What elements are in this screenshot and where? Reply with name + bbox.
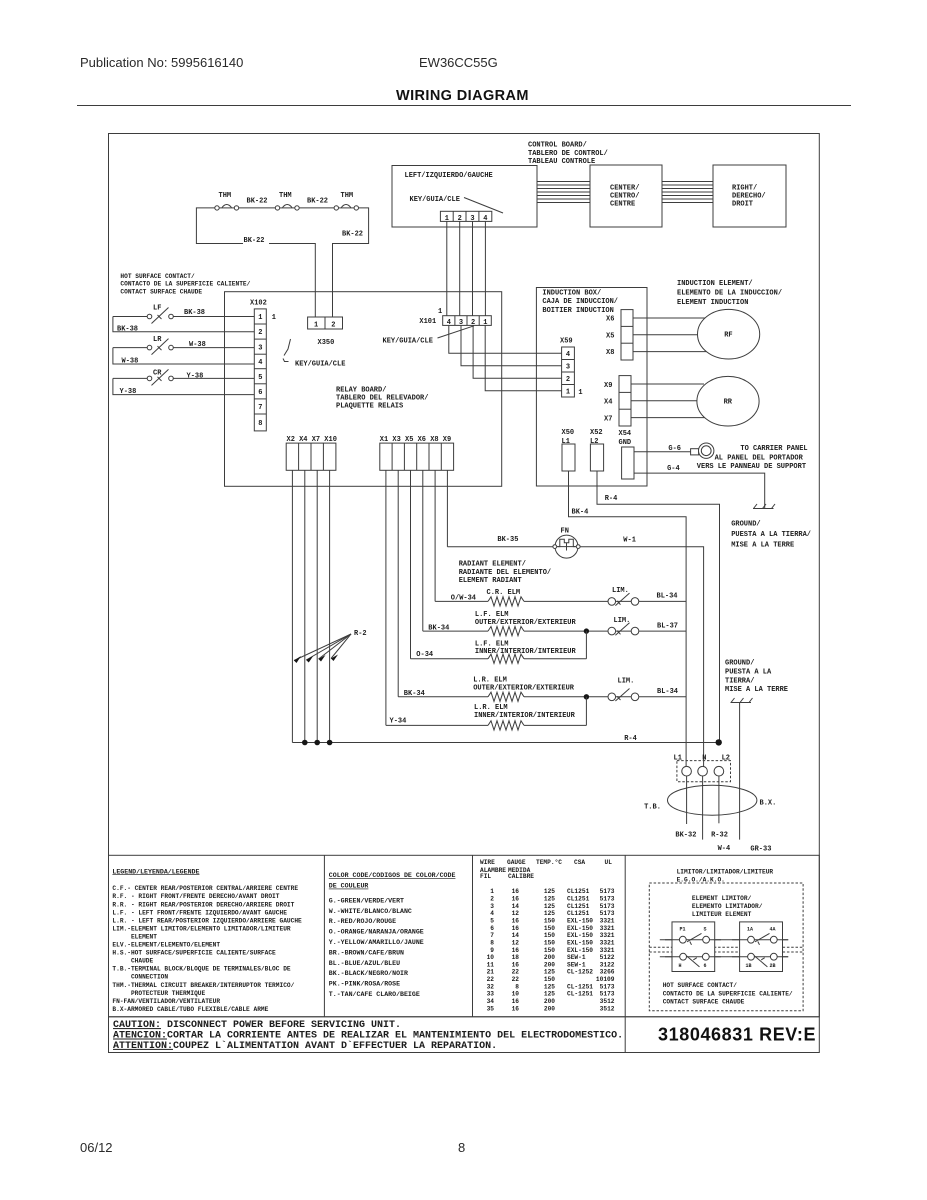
svg-text:06/12: 06/12 [80,1140,113,1155]
induction element RF [698,309,760,359]
LR return wire W-38 [113,348,254,364]
svg-text:18: 18 [512,954,520,961]
svg-text:L2: L2 [590,438,598,446]
svg-text:21: 21 [487,969,495,976]
svg-text:MISE A LA TERRE: MISE A LA TERRE [725,686,788,694]
wires from X2 X4 X7 X10 down [292,470,329,742]
svg-text:G-4: G-4 [667,465,680,473]
svg-text:CONNECTION: CONNECTION [112,974,168,981]
svg-text:EXL-150: EXL-150 [567,918,593,925]
svg-text:CENTRO/: CENTRO/ [610,193,639,201]
wires X101 to X59 [449,325,562,390]
svg-text:150: 150 [544,925,555,932]
key mark and label for X350 [284,339,291,356]
limitor contact dashed crossing lines [649,946,803,948]
legend box [109,855,820,1017]
svg-text:1B: 1B [746,963,752,969]
svg-text:PUESTA A LA: PUESTA A LA [725,669,772,677]
svg-text:CAJA DE INDUCCION/: CAJA DE INDUCCION/ [542,298,618,306]
svg-text:10: 10 [512,991,520,998]
terminal block dashed box [677,761,731,782]
wire W-1 fan to terminal N [577,547,704,767]
svg-text:BK-22: BK-22 [244,237,265,245]
junction dots on R-4 bus [302,740,308,746]
svg-text:R.R. - RIGHT REAR/POSTERIOR DE: R.R. - RIGHT REAR/POSTERIOR DERECHO/ARRI… [112,901,294,908]
svg-text:R.-RED/ROJO/ROUGE: R.-RED/ROJO/ROUGE [329,918,396,925]
svg-text:W-38: W-38 [122,357,139,365]
svg-text:CONTACT SURFACE CHAUDE: CONTACT SURFACE CHAUDE [120,288,202,295]
svg-text:W-1: W-1 [623,537,636,545]
C.R. element row [435,587,686,606]
svg-text:CENTRE: CENTRE [610,201,635,209]
svg-text:INNER/INTERIOR/INTERIEUR: INNER/INTERIOR/INTERIEUR [475,648,577,656]
svg-text:22: 22 [487,976,495,983]
svg-text:ATTENTION:COUPEZ L`ALIMENTATIO: ATTENTION:COUPEZ L`ALIMENTATION AVANT D`… [113,1040,497,1052]
svg-text:THM.-THERMAL CIRCUIT BREAKER/I: THM.-THERMAL CIRCUIT BREAKER/INTERRUPTOR… [112,982,294,989]
connector X1 X3 X5 X6 X8 X9 [380,436,454,470]
svg-text:GAUGE: GAUGE [507,859,526,866]
svg-text:L.R. ELM: L.R. ELM [473,677,507,685]
svg-text:5: 5 [490,918,494,925]
connector X102 [254,309,266,431]
svg-text:1: 1 [438,308,442,316]
fan FN [553,527,580,558]
svg-text:16: 16 [512,998,520,1005]
LF return wire BK-38 [113,317,254,332]
hot surface switch LR [113,336,254,355]
svg-text:LIMITEUR ELEMENT: LIMITEUR ELEMENT [692,911,752,918]
wires from X1..X9 down (staircase to radiant rows) [386,470,448,725]
svg-text:BK.-BLACK/NEGRO/NOIR: BK.-BLACK/NEGRO/NOIR [329,970,408,977]
svg-text:1: 1 [314,321,318,329]
svg-text:KEY/GUIA/CLE: KEY/GUIA/CLE [410,196,460,204]
svg-text:5173: 5173 [600,888,615,895]
svg-text:L.F. ELM: L.F. ELM [475,640,509,648]
svg-text:INDUCTION BOX/: INDUCTION BOX/ [542,290,601,298]
svg-text:R-32: R-32 [711,832,728,840]
svg-text:THM: THM [279,192,292,200]
svg-text:125: 125 [544,903,555,910]
svg-text:N: N [702,755,706,763]
L.F. outer element row [423,611,686,636]
svg-text:R-2: R-2 [354,630,367,638]
svg-text:BL-37: BL-37 [657,622,678,630]
svg-text:5: 5 [258,374,262,382]
svg-text:CL-1252: CL-1252 [567,969,593,976]
svg-text:8: 8 [490,939,494,946]
svg-text:L.F. - LEFT FRONT/FRENTE IZQUI: L.F. - LEFT FRONT/FRENTE IZQUIERDO/AVANT… [112,909,287,916]
svg-text:1: 1 [490,888,494,895]
control board RIGHT section [713,165,786,227]
svg-text:TABLERO DE CONTROL/: TABLERO DE CONTROL/ [528,150,608,158]
svg-text:BK-22: BK-22 [342,231,363,239]
svg-text:BK-22: BK-22 [307,198,328,206]
induction box [536,288,647,487]
legend column dividers [323,855,325,1017]
svg-text:ELEMENT: ELEMENT [112,934,157,941]
svg-text:HOT SURFACE CONTACT/: HOT SURFACE CONTACT/ [663,982,738,989]
svg-text:COLOR CODE/CODIGOS DE COLOR/CO: COLOR CODE/CODIGOS DE COLOR/CODE [329,872,456,879]
ribbon bus LEFT to CENTER [537,182,590,203]
svg-text:16: 16 [512,888,520,895]
svg-text:11: 11 [487,961,495,968]
svg-text:1: 1 [272,314,276,322]
svg-text:W-4: W-4 [718,845,731,853]
svg-text:5173: 5173 [600,991,615,998]
svg-text:AL PANEL DEL PORTADOR: AL PANEL DEL PORTADOR [715,455,804,463]
svg-text:CL1251: CL1251 [567,896,590,903]
svg-text:2: 2 [258,329,262,337]
svg-text:125: 125 [544,896,555,903]
svg-text:X5: X5 [606,332,614,340]
svg-text:L1: L1 [674,755,682,763]
svg-text:200: 200 [544,998,555,1005]
svg-text:L.R. - LEFT REAR/POSTERIOR IZQ: L.R. - LEFT REAR/POSTERIOR IZQUIERDO/ARR… [112,917,302,924]
svg-text:3321: 3321 [600,932,615,939]
svg-text:W-38: W-38 [189,341,206,349]
wire G-6 to ring terminal [634,451,691,453]
svg-text:8: 8 [458,1140,465,1155]
svg-text:L1: L1 [562,438,570,446]
svg-text:ELEMENT LIMITOR/: ELEMENT LIMITOR/ [692,895,752,902]
svg-text:12: 12 [512,939,520,946]
terminal circles L1 N L2 [682,766,692,776]
connector X9 X4 X7 [604,376,631,426]
svg-text:DROIT: DROIT [732,201,753,209]
connector on LEFT board pins 1 2 3 4 [440,211,491,223]
svg-text:14: 14 [512,903,520,910]
svg-text:RR: RR [724,399,733,407]
svg-text:16: 16 [512,896,520,903]
svg-text:H.S.-HOT SURFACE/SUPERFICIE CA: H.S.-HOT SURFACE/SUPERFICIE CALIENTE/SUR… [112,950,276,957]
svg-text:Y-38: Y-38 [120,388,137,396]
svg-text:BOITIER INDUCTION: BOITIER INDUCTION [542,307,613,315]
svg-text:B.X-ARMORED CABLE/TUBO FLEXIBL: B.X-ARMORED CABLE/TUBO FLEXIBLE/CABLE AR… [112,1006,268,1013]
svg-text:3: 3 [566,364,570,372]
control board LEFT section [392,166,537,228]
svg-text:GROUND/: GROUND/ [731,521,760,529]
svg-text:GROUND/: GROUND/ [725,660,754,668]
svg-text:ELEMENTO DE LA INDUCCION/: ELEMENTO DE LA INDUCCION/ [677,290,782,298]
svg-text:BR.-BROWN/CAFE/BRUN: BR.-BROWN/CAFE/BRUN [329,949,404,956]
svg-text:ELEMENTO LIMITADOR/: ELEMENTO LIMITADOR/ [692,903,763,910]
ribbon bus CENTER to RIGHT [662,182,713,203]
svg-text:9: 9 [490,947,494,954]
svg-text:3122: 3122 [600,961,615,968]
svg-text:1: 1 [258,314,262,322]
limitor lead wires [660,939,788,941]
svg-text:X350: X350 [318,339,335,347]
svg-text:X54: X54 [619,430,632,438]
svg-text:O.-ORANGE/NARANJA/ORANGE: O.-ORANGE/NARANJA/ORANGE [329,929,424,936]
svg-text:BK-34: BK-34 [428,625,449,633]
svg-text:RADIANTE DEL ELEMENTO/: RADIANTE DEL ELEMENTO/ [459,569,551,577]
svg-text:KEY/GUIA/CLE: KEY/GUIA/CLE [295,361,345,369]
svg-text:CAUTION: DISCONNECT POWER BEFO: CAUTION: DISCONNECT POWER BEFORE SERVICI… [113,1020,401,1031]
svg-text:DERECHO/: DERECHO/ [732,193,766,201]
svg-text:5173: 5173 [600,910,615,917]
svg-text:T.B.: T.B. [644,804,661,812]
svg-text:T.B.-TERMINAL BLOCK/BLOQUE DE: T.B.-TERMINAL BLOCK/BLOQUE DE TERMINALES… [112,966,291,973]
svg-text:34: 34 [487,998,495,1005]
svg-text:DE COULEUR: DE COULEUR [329,883,369,890]
svg-text:CR: CR [153,370,162,378]
svg-text:R-4: R-4 [605,495,618,503]
svg-text:SEW-1: SEW-1 [567,954,586,961]
svg-text:1: 1 [566,389,570,397]
svg-text:PK.-PINK/ROSA/ROSE: PK.-PINK/ROSA/ROSE [329,981,400,988]
svg-text:EXL-150: EXL-150 [567,947,593,954]
svg-text:CSA: CSA [574,859,585,866]
svg-text:BK-32: BK-32 [675,832,696,840]
svg-text:THM: THM [341,192,354,200]
svg-text:3: 3 [490,903,494,910]
svg-text:10109: 10109 [596,976,615,983]
svg-text:TABLERO DEL RELEVADOR/: TABLERO DEL RELEVADOR/ [336,395,428,403]
svg-text:BK-35: BK-35 [497,536,518,544]
svg-text:6: 6 [704,963,707,969]
svg-text:BL.-BLUE/AZUL/BLEU: BL.-BLUE/AZUL/BLEU [329,960,400,967]
svg-text:RIGHT/: RIGHT/ [732,185,757,193]
svg-text:S: S [704,927,707,933]
svg-text:3512: 3512 [600,1005,615,1012]
connector X350 [308,317,343,329]
svg-text:125: 125 [544,888,555,895]
L.R. outer element row [398,677,686,702]
svg-text:LF: LF [153,305,161,313]
svg-text:7: 7 [258,404,262,412]
svg-text:ELV.-ELEMENT/ELEMENTO/ELEMENT: ELV.-ELEMENT/ELEMENTO/ELEMENT [112,942,220,949]
svg-text:200: 200 [544,1005,555,1012]
svg-text:16: 16 [512,925,520,932]
svg-text:RELAY BOARD/: RELAY BOARD/ [336,387,386,395]
svg-text:INDUCTION ELEMENT/: INDUCTION ELEMENT/ [677,280,753,288]
svg-text:LEFT/IZQUIERDO/GAUCHE: LEFT/IZQUIERDO/GAUCHE [405,172,493,180]
svg-text:22: 22 [512,976,520,983]
svg-text:CHAUDE: CHAUDE [112,958,153,965]
svg-text:X52: X52 [590,429,603,437]
svg-text:P1: P1 [680,927,686,933]
svg-text:3321: 3321 [600,918,615,925]
connector X50 L1 [562,429,576,471]
svg-text:Y-34: Y-34 [390,718,407,726]
svg-text:H: H [679,963,682,969]
svg-text:22: 22 [512,969,520,976]
svg-text:3: 3 [258,344,262,352]
svg-text:CONTACT SURFACE CHAUDE: CONTACT SURFACE CHAUDE [663,999,745,1006]
svg-text:TO CARRIER PANEL: TO CARRIER PANEL [740,445,807,453]
wire R-4 from X52 to terminal L2 [597,471,720,742]
svg-text:R-4: R-4 [624,735,637,743]
ground symbol (range) [731,698,753,703]
svg-text:FIL: FIL [480,873,491,880]
svg-text:4: 4 [258,359,262,367]
hot surface switch CR [113,369,254,385]
svg-text:X102: X102 [250,300,267,308]
svg-text:CONTACTO DE LA SUPERFICIE CALI: CONTACTO DE LA SUPERFICIE CALIENTE/ [120,281,250,288]
element limitor switch box right [732,922,788,972]
ground wire GR-33 [739,703,741,840]
svg-text:2: 2 [566,376,570,384]
svg-text:G.-GREEN/VERDE/VERT: G.-GREEN/VERDE/VERT [329,897,404,904]
svg-text:L.F. ELM: L.F. ELM [475,611,509,619]
svg-text:CL1251: CL1251 [567,910,590,917]
THM loop left side wire [196,208,243,244]
caution box top rule [109,1016,820,1018]
svg-text:Y.-YELLOW/AMARILLO/JAUNE: Y.-YELLOW/AMARILLO/JAUNE [329,939,424,946]
wires X6 X5 X8 to RF [633,318,708,352]
svg-text:PLAQUETTE RELAIS: PLAQUETTE RELAIS [336,403,403,411]
svg-text:X101: X101 [419,318,436,326]
svg-text:OUTER/EXTERIOR/EXTERIEUR: OUTER/EXTERIOR/EXTERIEUR [473,685,575,693]
svg-text:BK-4: BK-4 [572,508,589,516]
svg-text:BK-34: BK-34 [404,690,425,698]
svg-text:THM: THM [219,192,232,200]
svg-text:318046831 REV:E: 318046831 REV:E [658,1025,816,1045]
svg-text:Publication No: 5995616140: Publication No: 5995616140 [80,55,243,70]
R-2 label with arrows [294,630,367,663]
svg-text:3512: 3512 [600,998,615,1005]
svg-text:2: 2 [331,321,335,329]
svg-text:L.R. ELM: L.R. ELM [474,704,508,712]
bottom R-4 bus wire [292,742,718,744]
svg-text:EW36CC55G: EW36CC55G [419,55,498,70]
svg-text:X6: X6 [606,316,614,324]
svg-text:1: 1 [578,389,582,397]
svg-text:MISE A LA TERRE: MISE A LA TERRE [731,542,794,550]
thermal breaker THM 2 [275,192,299,210]
svg-text:VERS LE PANNEAU DE SUPPORT: VERS LE PANNEAU DE SUPPORT [697,463,806,471]
svg-text:X4: X4 [604,399,612,407]
svg-text:16: 16 [512,1005,520,1012]
svg-text:KEY/GUIA/CLE: KEY/GUIA/CLE [383,337,433,345]
svg-text:C.R. ELM: C.R. ELM [487,589,521,597]
svg-text:SEW-1: SEW-1 [567,961,586,968]
svg-text:X7: X7 [604,416,612,424]
svg-text:5122: 5122 [600,954,615,961]
svg-text:125: 125 [544,969,555,976]
svg-text:16: 16 [512,961,520,968]
svg-text:BK-38: BK-38 [117,325,138,333]
L.R. inner element row [386,697,587,730]
svg-text:TEMP.°C: TEMP.°C [536,859,562,866]
svg-text:O-34: O-34 [416,651,433,659]
element limitor switch box left [665,922,721,972]
svg-text:CONTROL BOARD/: CONTROL BOARD/ [528,142,587,150]
svg-text:OUTER/EXTERIOR/EXTERIEUR: OUTER/EXTERIOR/EXTERIEUR [475,619,577,627]
svg-text:4: 4 [490,910,494,917]
armored cable B.X. ellipse [668,785,757,815]
svg-text:EXL-150: EXL-150 [567,932,593,939]
connector X101 pins 4 3 2 1 [443,316,492,327]
svg-text:PROTECTEUR THERMIQUE: PROTECTEUR THERMIQUE [112,990,205,997]
svg-text:5173: 5173 [600,983,615,990]
svg-text:UL: UL [605,859,613,866]
svg-text:WIRE: WIRE [480,859,495,866]
svg-text:ELEMENT RADIANT: ELEMENT RADIANT [459,577,522,585]
svg-text:12: 12 [512,910,520,917]
svg-text:LIM.: LIM. [612,587,629,595]
THM loop right side wire [333,208,369,317]
svg-text:4: 4 [566,351,570,359]
svg-text:INNER/INTERIOR/INTERIEUR: INNER/INTERIOR/INTERIEUR [474,712,576,720]
svg-text:RF: RF [724,332,732,340]
L.F. inner element row [411,631,587,663]
svg-text:X59: X59 [560,338,573,346]
ground symbol (carrier panel) [753,504,775,509]
svg-text:3266: 3266 [600,969,615,976]
svg-text:125: 125 [544,910,555,917]
connector X52 L2 [590,429,604,471]
svg-text:EXL-150: EXL-150 [567,939,593,946]
limitor dashed box [649,883,803,1011]
svg-text:BL-34: BL-34 [657,688,678,696]
svg-text:HOT SURFACE CONTACT/: HOT SURFACE CONTACT/ [120,273,195,280]
svg-text:CONTACTO DE LA SUPERFICIE CALI: CONTACTO DE LA SUPERFICIE CALIENTE/ [663,990,793,997]
svg-text:LIMITOR/LIMITADOR/LIMITEUR: LIMITOR/LIMITADOR/LIMITEUR [677,868,774,875]
svg-text:GND: GND [619,439,632,447]
wire segment + label BK-22 [299,207,334,209]
control board CENTER section [590,165,662,227]
svg-text:CENTER/: CENTER/ [610,185,639,193]
wires below terminals [687,776,719,840]
hot surface switch LF [113,305,254,324]
svg-text:CL-1251: CL-1251 [567,983,593,990]
svg-text:LR: LR [153,336,162,344]
junction dot at L2 [716,739,722,745]
connector X6 X5 X8 [606,310,633,360]
svg-text:FN: FN [561,527,569,535]
svg-text:16: 16 [512,918,520,925]
header rule [77,105,851,107]
svg-text:7: 7 [490,932,494,939]
connector X2 X4 X7 X10 [286,436,337,470]
svg-text:LIM.: LIM. [614,617,631,625]
svg-text:200: 200 [544,961,555,968]
svg-text:Y-38: Y-38 [187,373,204,381]
thermal breaker THM 3 [334,192,358,210]
svg-text:35: 35 [487,1005,495,1012]
svg-text:X50: X50 [562,429,575,437]
svg-text:1A: 1A [747,927,753,933]
svg-text:B.X.: B.X. [760,800,777,808]
svg-text:G-6: G-6 [668,445,681,453]
svg-text:3321: 3321 [600,925,615,932]
svg-text:LIM.: LIM. [618,678,635,686]
svg-text:T.-TAN/CAFE CLARO/BEIGE: T.-TAN/CAFE CLARO/BEIGE [329,991,420,998]
svg-text:X9: X9 [604,382,612,390]
svg-text:CL1251: CL1251 [567,888,590,895]
wires X9 X4 X7 to RR [631,384,705,418]
svg-text:150: 150 [544,939,555,946]
svg-text:L2: L2 [722,755,730,763]
svg-text:TIERRA/: TIERRA/ [725,678,754,686]
CR return wire Y-38 [113,378,254,394]
svg-text:O/W-34: O/W-34 [451,594,476,602]
thermal breaker THM 1 [215,192,239,210]
svg-text:150: 150 [544,918,555,925]
ring terminal to carrier panel [691,443,714,458]
svg-text:5173: 5173 [600,903,615,910]
induction element RR [697,376,759,426]
svg-text:CALIBRE: CALIBRE [508,873,534,880]
svg-text:5173: 5173 [600,896,615,903]
svg-text:PUESTA A LA TIERRA/: PUESTA A LA TIERRA/ [731,531,811,539]
svg-text:W.-WHITE/BLANCO/BLANC: W.-WHITE/BLANCO/BLANC [329,908,412,915]
svg-text:TABLEAU CONTROLE: TABLEAU CONTROLE [528,158,595,166]
svg-text:C.F.- CENTER REAR/POSTERIOR CE: C.F.- CENTER REAR/POSTERIOR CENTRAL/ARRI… [112,885,298,892]
svg-text:6: 6 [258,389,262,397]
